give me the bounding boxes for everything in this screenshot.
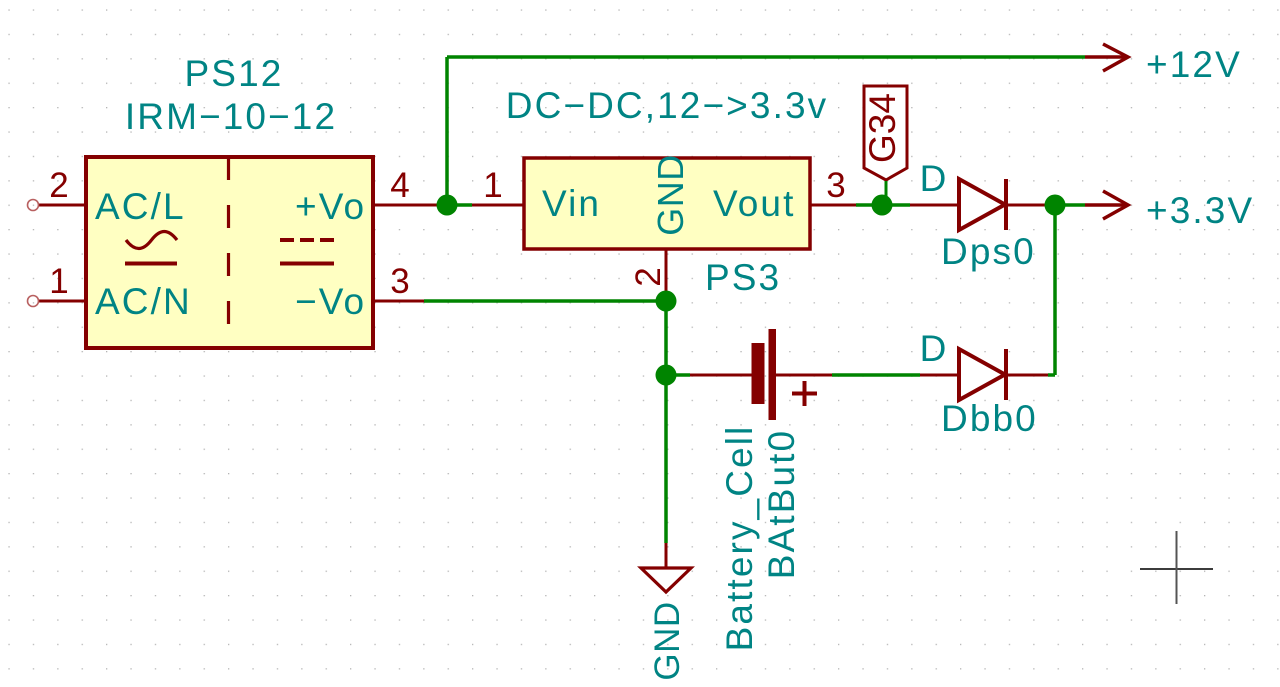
svg-text:G34: G34 xyxy=(862,93,903,163)
PS12 DC solid line xyxy=(280,262,334,266)
wire +12V net horizontal top xyxy=(447,55,1085,59)
wire Dps0 cathode to +3.3V xyxy=(1048,203,1085,207)
junction B at PS3 Vout xyxy=(872,195,893,216)
svg-text:GND: GND xyxy=(648,601,687,680)
crosshair cursor xyxy=(1140,568,1213,570)
svg-text:1: 1 xyxy=(49,262,68,301)
diode Dps0 xyxy=(959,179,1005,230)
+3.3V arrow xyxy=(1085,203,1128,207)
diode Dbb0 xyxy=(959,349,1005,400)
svg-text:GND: GND xyxy=(650,154,691,236)
PS12 DC dashed line xyxy=(280,238,334,242)
svg-text:3: 3 xyxy=(826,166,845,205)
svg-text:AC/L: AC/L xyxy=(95,186,186,227)
wire GND junction to battery xyxy=(666,373,690,377)
PS3 pin 3 xyxy=(810,204,856,207)
global label G34 flag xyxy=(864,86,907,180)
DC-DC converter PS3 body xyxy=(524,158,810,249)
junction D at PS3 GND xyxy=(656,291,677,312)
junction A at PS12 +Vo xyxy=(437,195,458,216)
wire +12V net vertical from junction A up xyxy=(445,57,449,205)
svg-text:Dps0: Dps0 xyxy=(941,231,1036,272)
svg-text:+12V: +12V xyxy=(1146,44,1242,85)
G34 link wire xyxy=(885,181,888,205)
battery plus sign xyxy=(792,392,817,396)
battery BAtBut0 xyxy=(752,343,765,404)
junction C at +3.3V node xyxy=(1045,195,1066,216)
wire GND net down to ground symbol xyxy=(664,375,668,543)
+12V arrow xyxy=(1085,55,1128,59)
PS3 pin 1 xyxy=(472,204,524,207)
wire battery plus to Dbb0 anode xyxy=(832,373,920,377)
junction E at battery tap xyxy=(656,365,677,386)
svg-text:Dbb0: Dbb0 xyxy=(941,398,1038,439)
svg-text:DC−DC,12−>3.3v: DC−DC,12−>3.3v xyxy=(506,85,828,126)
wire Dbb0 cathode corner xyxy=(1048,373,1055,377)
PS12 AC underline xyxy=(125,262,177,266)
svg-text:2: 2 xyxy=(629,267,668,286)
power supply PS12 body xyxy=(86,157,373,348)
svg-text:1: 1 xyxy=(483,166,502,205)
PS12 pin 1 xyxy=(39,300,86,303)
svg-text:AC/N: AC/N xyxy=(95,281,192,322)
svg-text:+3.3V: +3.3V xyxy=(1146,190,1254,231)
wire Dbb0 up to +3.3V junction xyxy=(1053,205,1057,375)
PS12 pin 3 xyxy=(373,300,424,303)
svg-text:D: D xyxy=(920,158,949,199)
PS12 internal divider dashed line xyxy=(227,157,230,333)
svg-text:BAtBut0: BAtBut0 xyxy=(761,429,802,579)
wire -Vo to GND junction xyxy=(424,299,666,303)
wire junction A to PS3 Vin xyxy=(447,203,472,207)
svg-text:Vout: Vout xyxy=(713,183,795,224)
svg-text:−Vo: −Vo xyxy=(295,281,366,322)
svg-text:4: 4 xyxy=(390,166,409,205)
svg-text:+Vo: +Vo xyxy=(295,186,366,227)
PS12 AC sine symbol xyxy=(126,232,177,249)
PS12 pin 2 xyxy=(39,204,86,207)
wire Vout net at PS3 pin 3 xyxy=(856,203,910,207)
svg-text:Vin: Vin xyxy=(542,183,601,224)
svg-text:D: D xyxy=(920,328,949,369)
svg-text:2: 2 xyxy=(49,166,68,205)
wire GND net vertical xyxy=(664,301,668,375)
PS12 pin 4 xyxy=(373,204,447,207)
svg-text:IRM−10−12: IRM−10−12 xyxy=(125,96,337,137)
ground symbol GND xyxy=(665,543,668,568)
svg-text:PS12: PS12 xyxy=(185,53,284,94)
svg-text:PS3: PS3 xyxy=(705,257,781,298)
svg-text:Battery_Cell: Battery_Cell xyxy=(719,425,760,652)
svg-text:3: 3 xyxy=(390,262,409,301)
PS3 pin 2 xyxy=(665,249,668,301)
